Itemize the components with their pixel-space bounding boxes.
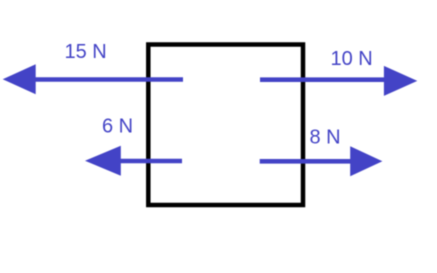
svg-text:10 N: 10 N	[331, 48, 373, 70]
force arrow 10 N (right, top)	[260, 66, 417, 96]
force arrow 6 N (left, bottom)	[85, 146, 182, 176]
force arrow 15 N (left, top)	[3, 64, 183, 94]
svg-text:6 N: 6 N	[102, 116, 133, 138]
svg-text:8 N: 8 N	[310, 127, 341, 149]
box (block outline)	[148, 45, 303, 206]
force arrow 8 N (right, bottom)	[260, 146, 383, 176]
svg-text:15 N: 15 N	[65, 41, 107, 63]
